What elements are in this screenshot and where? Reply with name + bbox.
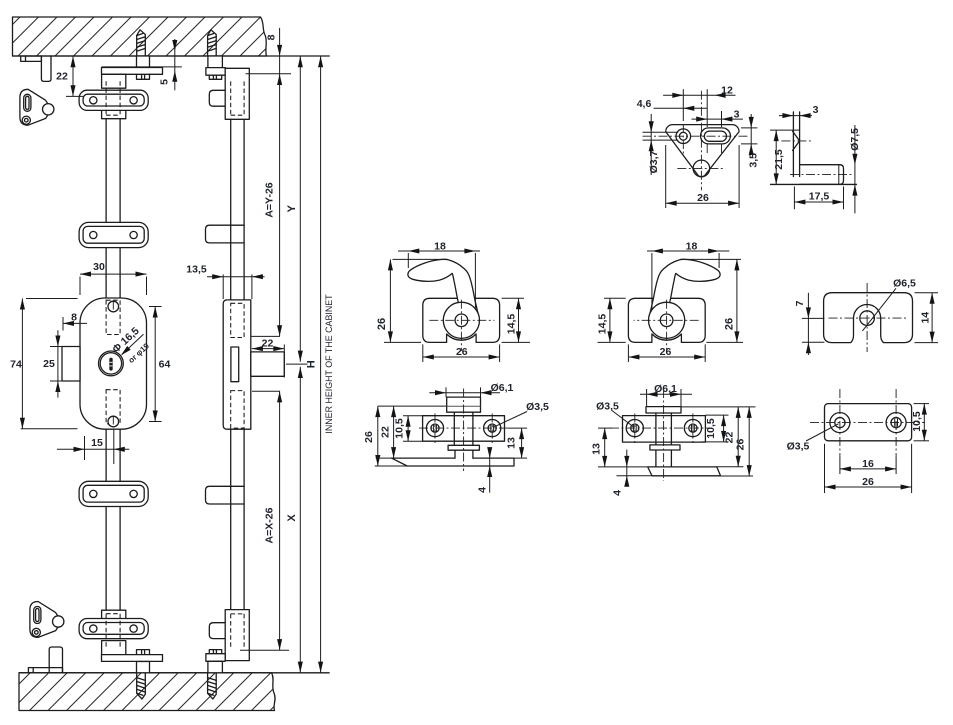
hook 2 dim 26 (base width) bbox=[628, 356, 705, 358]
dim 25 (tab height) bbox=[57, 330, 59, 397]
svg-text:A=X-26: A=X-26 bbox=[263, 507, 275, 543]
front top rod-holder block bbox=[102, 107, 126, 119]
bracket A - dim diameter 6,1 bbox=[429, 392, 500, 394]
svg-text:16: 16 bbox=[862, 458, 874, 470]
keeper plate K2 (front) bbox=[79, 222, 148, 247]
svg-text:H: H bbox=[306, 360, 318, 368]
catch top - slot bbox=[24, 94, 31, 111]
catch top - screw hole bbox=[22, 116, 30, 124]
catch side - pin centerline bbox=[790, 174, 852, 176]
screw - front view top bbox=[137, 30, 146, 56]
screw - side view top bbox=[208, 30, 217, 56]
svg-text:8: 8 bbox=[265, 34, 277, 40]
svg-text:Ø6,1: Ø6,1 bbox=[491, 382, 514, 394]
hook 2 dim 14,5 bbox=[609, 298, 611, 342]
side body hidden rod end top (dashed) bbox=[231, 303, 244, 337]
front bottom rod-holder collar bbox=[137, 662, 150, 673]
dim 26 (catch width) bbox=[666, 202, 739, 204]
dim 3 (plate thickness) bbox=[779, 115, 812, 117]
svg-text:Ø6,1: Ø6,1 bbox=[654, 383, 677, 395]
bracket B - left screw hole bbox=[626, 420, 643, 437]
keyhole slot bbox=[109, 358, 112, 371]
dim 17,5 (pin length) bbox=[794, 201, 843, 203]
dim diameter 7,5 (pin) bbox=[854, 125, 856, 213]
front bottom bracket body bbox=[102, 641, 126, 655]
bottom dowel plate bbox=[28, 668, 62, 673]
svg-text:30: 30 bbox=[93, 261, 105, 273]
lock body bottom screw hole bbox=[108, 416, 119, 427]
front top screw slotted head bbox=[137, 74, 150, 79]
svg-text:INNER HEIGHT OF THE CABINET: INNER HEIGHT OF THE CABINET bbox=[324, 294, 334, 434]
dim 21,5 bbox=[775, 130, 777, 184]
bracket B - dim 26 bbox=[748, 407, 750, 476]
svg-text:A=Y-26: A=Y-26 bbox=[263, 182, 275, 217]
bracket A - pin shaft bbox=[454, 412, 473, 445]
front bottom rod-holder block bbox=[102, 610, 126, 622]
side top bracket body bbox=[225, 68, 249, 119]
svg-text:10,5: 10,5 bbox=[705, 418, 717, 439]
svg-text:8: 8 bbox=[71, 312, 77, 324]
bracket A - base profile bbox=[392, 458, 515, 466]
front top mounting L-plate bbox=[102, 68, 163, 75]
bracket B - shaft below flange bbox=[656, 450, 672, 467]
side top bracket hidden rod end (dashed) bbox=[231, 81, 244, 115]
keeper plate K3 (front) bbox=[79, 481, 148, 506]
side body slot bbox=[231, 347, 239, 382]
side bottom rod collar bbox=[208, 661, 223, 673]
rod segment front (K3 to bottom block) bbox=[106, 507, 120, 611]
catch detail - catch hole bbox=[693, 160, 710, 177]
bracket B - flange washer bbox=[650, 445, 680, 450]
svg-text:26: 26 bbox=[724, 318, 736, 330]
hook 1 pivot hole bbox=[455, 314, 468, 327]
dim 3,5 (slot width) bbox=[750, 114, 752, 152]
svg-text:X: X bbox=[286, 514, 298, 522]
catch detail - screw hole bbox=[676, 129, 691, 144]
dim 8 (screw inset below panel) bbox=[279, 28, 281, 337]
dim A=X-26 (lower rod length) bbox=[279, 391, 281, 650]
svg-text:14,5: 14,5 bbox=[506, 314, 518, 335]
svg-text:12: 12 bbox=[721, 84, 733, 96]
bracket B - right screw hole bbox=[684, 420, 701, 437]
plate C - dim 10,5 bbox=[923, 404, 925, 441]
rod guide - hole bbox=[860, 311, 875, 326]
svg-text:Ø3,7: Ø3,7 bbox=[648, 150, 660, 173]
svg-text:7: 7 bbox=[794, 300, 806, 306]
bracket B - dim 10,5 bbox=[723, 415, 725, 442]
bracket A - right screw hole bbox=[484, 420, 501, 437]
dim Y (top panel to handle) bbox=[299, 56, 301, 362]
bracket A - pin block bbox=[447, 397, 481, 412]
dim 5 (bracket plate drop) bbox=[102, 66, 182, 68]
key cylinder knob (side) bbox=[251, 352, 284, 376]
bracket A - clamp plate bbox=[423, 416, 505, 442]
rod guide - centerlines bbox=[866, 283, 868, 352]
dim A=Y-26 (upper rod length) bbox=[277, 325, 282, 336]
screw - front view bottom bbox=[137, 673, 146, 699]
front top bracket body bbox=[102, 74, 126, 88]
svg-text:13: 13 bbox=[591, 443, 603, 455]
back plate C - centerlines bbox=[839, 389, 841, 456]
svg-text:4: 4 bbox=[477, 487, 489, 493]
hook 1 dim 14,5 bbox=[518, 298, 520, 342]
svg-text:22: 22 bbox=[262, 337, 274, 349]
bracket A - dim diameter 3,5 leader bbox=[493, 412, 527, 428]
front bottom mounting L-plate bbox=[102, 655, 163, 662]
bracket A - shaft below flange bbox=[455, 450, 473, 458]
bracket A - dim 26 bbox=[377, 406, 379, 466]
svg-text:3: 3 bbox=[813, 104, 819, 116]
catch bottom - slot bbox=[34, 607, 41, 624]
lock body (side view) bbox=[223, 300, 251, 429]
side top washer plate bbox=[206, 68, 225, 76]
dim H tick (handle height) bbox=[286, 363, 308, 365]
rod side view (body to bottom bracket) bbox=[231, 429, 244, 609]
bracket A - dim 4 bbox=[489, 450, 491, 493]
keeper tab K4 (side) bbox=[209, 623, 225, 639]
side bottom bracket hidden rod end (dashed) bbox=[231, 614, 244, 648]
plate C - dim diameter 3,5 leader bbox=[806, 424, 839, 441]
dim 74 (lock body height) bbox=[21, 299, 23, 429]
dim 8 (lock side tab) bbox=[63, 322, 87, 324]
catch keeper plate (top, side silhouette) bbox=[20, 89, 52, 125]
bracket A - centerlines bbox=[419, 427, 508, 429]
hook latch 1 - base geometry (group) bbox=[408, 259, 500, 351]
catch keeper plate (bottom) bbox=[30, 602, 62, 638]
svg-text:14,5: 14,5 bbox=[597, 314, 609, 335]
top dowel plate bbox=[21, 56, 42, 61]
bottom dowel pin bbox=[49, 647, 62, 673]
svg-text:4,6: 4,6 bbox=[637, 98, 652, 110]
hook 2 dim 26 (height) bbox=[736, 259, 738, 342]
dim 64 (hole spacing) bbox=[154, 307, 156, 422]
svg-text:10,5: 10,5 bbox=[394, 418, 406, 439]
bracket A - plate top edge line bbox=[378, 405, 447, 407]
top panel bottom reference line bbox=[13, 55, 330, 57]
side top rod collar bbox=[208, 56, 223, 68]
keeper tab K2 (side) bbox=[206, 225, 245, 243]
lock body side tab bbox=[62, 347, 80, 382]
dim 3 (slot play) bbox=[692, 118, 743, 120]
svg-text:18: 18 bbox=[686, 241, 698, 253]
bracket B - pin shaft bbox=[656, 413, 672, 445]
svg-text:Ø3,5: Ø3,5 bbox=[787, 441, 810, 453]
plate C - dim 16 bbox=[840, 468, 896, 470]
hook 1 dim 26 (base width) bbox=[423, 356, 500, 358]
bracket A - flange washer bbox=[448, 445, 479, 450]
bracket B - dim 13 bbox=[604, 428, 606, 467]
hook 2 dim 18 bbox=[647, 250, 729, 252]
bracket B - dim diameter 3,5 leader bbox=[612, 411, 634, 428]
svg-text:Ø6,5: Ø6,5 bbox=[893, 278, 916, 290]
bracket B - pin block bbox=[646, 407, 681, 413]
side bottom washer plate bbox=[206, 654, 225, 662]
svg-text:26: 26 bbox=[363, 431, 375, 443]
catch side - countersink mark bbox=[793, 131, 800, 150]
catch top - bump circle bbox=[43, 104, 54, 115]
svg-text:22: 22 bbox=[724, 432, 736, 444]
svg-text:13: 13 bbox=[506, 437, 518, 449]
dim inner height of the cabinet bbox=[320, 56, 322, 672]
bracket A - dim 10,5 bbox=[407, 416, 409, 442]
svg-text:15: 15 bbox=[91, 437, 103, 449]
dim 4,6 bbox=[654, 107, 708, 109]
side body hidden rod end bottom (dashed) bbox=[231, 391, 244, 429]
bracket B - dim 22 bbox=[737, 407, 739, 467]
svg-text:26: 26 bbox=[456, 346, 468, 358]
keyhole cylinder bbox=[99, 351, 124, 376]
dim 22 (top-left offset) bbox=[72, 56, 74, 96]
back plate C - right hole bbox=[886, 413, 906, 433]
side top screw slotted head bbox=[209, 75, 221, 79]
catch detail - slot bbox=[701, 128, 731, 144]
hook latch 2 (mirrored geometry) bbox=[628, 259, 720, 351]
svg-text:Ø3,5: Ø3,5 bbox=[526, 401, 549, 413]
bracket A - dim 13 bbox=[521, 428, 523, 458]
catch side - pin bbox=[800, 165, 844, 185]
dim X (handle to bottom panel) bbox=[299, 367, 301, 673]
svg-text:3,5: 3,5 bbox=[747, 153, 759, 168]
svg-text:3: 3 bbox=[734, 108, 740, 120]
lock body (front view) bbox=[80, 298, 147, 429]
top dowel pin bbox=[41, 56, 51, 81]
bracket B - dim 4 bbox=[626, 450, 628, 484]
catch side - mounting surface bbox=[770, 183, 857, 185]
bracket B - clamp plate bbox=[623, 416, 706, 443]
svg-text:26: 26 bbox=[697, 192, 709, 204]
svg-text:26: 26 bbox=[862, 476, 874, 488]
dim diameter 3,7 bbox=[643, 131, 679, 133]
bracket B - base profile bbox=[648, 467, 721, 476]
dim 12 (hole to slot center) bbox=[663, 94, 735, 96]
svg-text:25: 25 bbox=[43, 358, 55, 370]
rod segment front (body to K3) bbox=[106, 429, 120, 481]
svg-text:74: 74 bbox=[10, 359, 22, 371]
bracket A - left screw hole bbox=[426, 420, 443, 437]
back plate C - outline bbox=[825, 404, 912, 441]
bottom cabinet panel (hatched wood section) bbox=[19, 673, 275, 711]
keeper tab K3 (side) bbox=[206, 486, 245, 504]
svg-text:Y: Y bbox=[286, 204, 298, 212]
svg-text:64: 64 bbox=[159, 359, 171, 371]
svg-text:4: 4 bbox=[612, 490, 624, 496]
front bottom bracket hidden rod end (dashed) bbox=[106, 614, 120, 648]
back plate C - left hole bbox=[830, 413, 850, 433]
hook 1 dim 18 bbox=[398, 250, 480, 252]
catch detail - centerlines bbox=[643, 135, 750, 137]
keeper plate K1 (front, below top bracket) bbox=[79, 90, 148, 110]
side bottom bracket body bbox=[225, 610, 249, 661]
svg-text:26: 26 bbox=[376, 318, 388, 330]
bracket A - dim 22 bbox=[393, 406, 395, 458]
side bottom screw slotted head bbox=[209, 650, 221, 654]
rod side view (bracket to lock body) bbox=[231, 119, 244, 300]
keeper plate K4 (front) bbox=[79, 619, 148, 639]
svg-text:22: 22 bbox=[380, 426, 392, 438]
hook 1 centerlines bbox=[429, 319, 494, 321]
rod guide - body outline with keyhole cutout bbox=[824, 293, 913, 343]
bottom panel top reference line bbox=[19, 672, 330, 674]
svg-text:Ø7,5: Ø7,5 bbox=[849, 128, 861, 151]
svg-text:26: 26 bbox=[660, 346, 672, 358]
lock body hidden rod end top (dashed) bbox=[106, 300, 120, 334]
catch plate detail - outline bbox=[666, 125, 739, 177]
lock body hidden rod end bottom (dashed) bbox=[106, 390, 120, 424]
front top rod-holder collar bbox=[137, 56, 150, 67]
catch side - plate bbox=[793, 112, 799, 177]
screw - side view bottom bbox=[208, 673, 217, 699]
rod segment front (top bracket to K2) bbox=[106, 119, 120, 223]
svg-text:17,5: 17,5 bbox=[809, 191, 830, 203]
catch side - hole centerline bbox=[781, 140, 811, 142]
svg-text:Ø3,5: Ø3,5 bbox=[596, 401, 619, 413]
svg-text:22: 22 bbox=[56, 71, 68, 83]
front bottom screw slotted head bbox=[137, 650, 150, 655]
keyhole diameter leader bbox=[122, 334, 144, 354]
svg-text:26: 26 bbox=[735, 439, 747, 451]
svg-text:21,5: 21,5 bbox=[773, 149, 785, 170]
rod guide - dim 7 bbox=[807, 293, 809, 355]
bracket B - plate top edge line bbox=[681, 406, 756, 408]
dim 15 (keyhole offset) bbox=[57, 448, 129, 450]
catch bottom - bump circle bbox=[53, 616, 64, 627]
keeper tab K1 (side) bbox=[209, 90, 225, 106]
top cabinet panel (hatched wood section) bbox=[13, 17, 267, 56]
svg-text:5: 5 bbox=[159, 79, 171, 85]
svg-text:14: 14 bbox=[920, 312, 932, 324]
bracket B - centerlines bbox=[610, 427, 712, 429]
dim 30 (lock body width) bbox=[80, 273, 147, 275]
svg-text:10,5: 10,5 bbox=[911, 411, 923, 432]
svg-text:18: 18 bbox=[434, 241, 446, 253]
bracket B - dim diameter 6,1 bbox=[640, 393, 692, 395]
front top bracket hidden rod end (dashed) bbox=[106, 81, 120, 115]
plate C - dim 26 bbox=[825, 486, 912, 488]
rod guide - dim diameter 6,5 with leader bbox=[862, 288, 896, 331]
hook 1 dim 26 (height) bbox=[389, 259, 391, 342]
rod segment front (K2 to lock body) bbox=[106, 248, 120, 298]
catch bottom - screw hole bbox=[32, 628, 40, 636]
rod guide - dim 14 bbox=[931, 293, 933, 343]
svg-text:13,5: 13,5 bbox=[186, 264, 207, 276]
lock body top screw hole bbox=[108, 301, 119, 312]
